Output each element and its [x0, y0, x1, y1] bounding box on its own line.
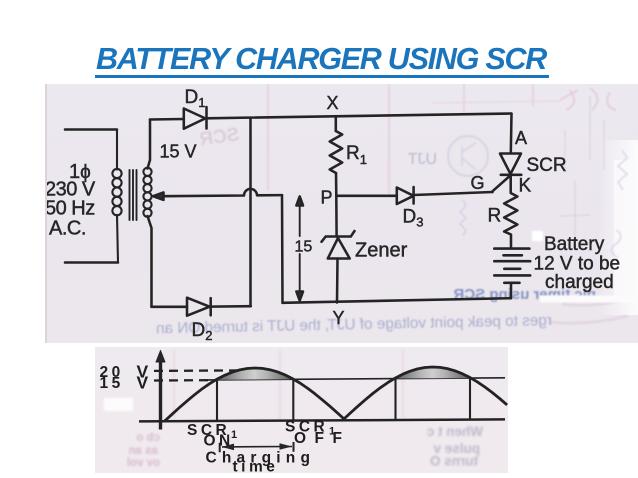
wire: gate to D3 [414, 192, 493, 195]
svg-text:Battery: Battery [544, 234, 605, 255]
svg-text:R1: R1 [346, 143, 367, 167]
svg-text:50 Hz: 50 Hz [47, 198, 95, 220]
svg-text:OFF: OFF [294, 430, 351, 447]
wire: D2 cathode corner [211, 305, 251, 308]
waveform x-axis baseline [139, 419, 505, 421]
diode D2 [209, 298, 212, 315]
title underline [95, 75, 549, 78]
svg-text:A.C.: A.C. [49, 218, 86, 240]
sine hump 2 [343, 367, 507, 420]
white patches [532, 231, 543, 241]
battery [494, 249, 530, 276]
svg-text:15: 15 [100, 375, 124, 392]
title [2, 42, 638, 77]
marker line SCR1 ON [216, 380, 218, 422]
shaded cap hump2 [394, 367, 472, 379]
wire: top rail left of D1 [150, 118, 184, 121]
white patch [104, 398, 133, 411]
wire: P to D3 [336, 195, 397, 198]
wire: D2 column from top rail [249, 118, 252, 307]
waveform y-axis [159, 356, 162, 430]
svg-text:15 V: 15 V [160, 142, 197, 162]
wire: down to Y rail [281, 195, 284, 303]
svg-text:P: P [321, 188, 333, 208]
svg-text:15: 15 [295, 239, 313, 256]
wire: D2 anode [152, 306, 188, 309]
svg-text:rges to peak point voltage of: rges to peak point voltage of UJT, the U… [156, 312, 552, 337]
marker line SCR1 OFF [292, 380, 294, 421]
SCR thyristor [500, 154, 521, 175]
wire: secondary bottom lead [148, 216, 152, 307]
svg-text:turns O: turns O [430, 454, 478, 469]
wire: bottom Y rail [283, 298, 512, 303]
svg-text:R: R [488, 206, 502, 227]
svg-text:as an: as an [129, 445, 158, 457]
diode D1 [184, 109, 206, 129]
dashed 15V level [154, 379, 208, 382]
sine hump 1 [165, 368, 346, 421]
wire: primary bottom stub [65, 261, 118, 264]
scanned waveform figure [95, 347, 508, 473]
wire: R1 to P [335, 173, 338, 237]
bleed pink text left block [127, 432, 160, 469]
wire: battery bottom lead [510, 283, 513, 298]
svg-text:SCR: SCR [527, 155, 567, 176]
marker line hump2 left [394, 378, 396, 420]
wire: gate diagonal [492, 175, 511, 192]
wire: X branch down to R1 [335, 116, 338, 131]
bleed resistor squiggle [460, 200, 466, 236]
charging time dimension arrow [220, 442, 294, 452]
svg-text:K: K [519, 176, 532, 197]
svg-text:G: G [471, 173, 485, 193]
svg-text:D3: D3 [403, 207, 424, 230]
scanned circuit figure [45, 84, 638, 343]
zener diode [322, 231, 355, 242]
wire: secondary top lead [148, 120, 151, 169]
wire: SCR anode drop [510, 114, 513, 154]
svg-text:Y: Y [333, 308, 345, 328]
marker line hump2 right [469, 378, 471, 420]
shaded cap hump1 [216, 368, 294, 380]
svg-text:X: X [327, 93, 339, 113]
svg-text:D1: D1 [185, 87, 206, 110]
resistor R [504, 175, 517, 248]
wire: top rail right of D1 [207, 114, 512, 119]
wire: zener to Y rail [336, 259, 339, 303]
diode D3 [397, 188, 414, 205]
transformer T primary winding [112, 130, 121, 263]
svg-text:time: time [233, 459, 279, 474]
bleed mirrored text right block [426, 424, 483, 469]
svg-text:When t c: When t c [426, 424, 483, 439]
dashed 20V level [154, 369, 240, 372]
15V solid level line [208, 378, 505, 380]
svg-text:charged: charged [545, 272, 614, 293]
bleed transistor circle [448, 136, 488, 176]
svg-text:SCR: SCR [198, 124, 241, 150]
center tap arrowhead [153, 192, 164, 200]
measure arrow 15 [299, 202, 301, 295]
svg-text:A: A [515, 128, 527, 148]
svg-text:cb o: cb o [136, 432, 160, 444]
svg-text:UJT: UJT [407, 151, 437, 168]
transformer core [130, 170, 137, 220]
svg-text:ON: ON [204, 433, 234, 450]
svg-text:Zener: Zener [355, 240, 408, 262]
resistor R1 [330, 131, 343, 173]
transformer T secondary winding [143, 168, 151, 217]
wire: center tap with hump [163, 189, 282, 196]
faint grid bleed lines [268, 84, 533, 194]
wire: primary top stub [65, 128, 117, 131]
svg-text:ov vol: ov vol [127, 457, 160, 469]
faint grid bleed [174, 350, 403, 420]
svg-text:V: V [137, 372, 149, 392]
